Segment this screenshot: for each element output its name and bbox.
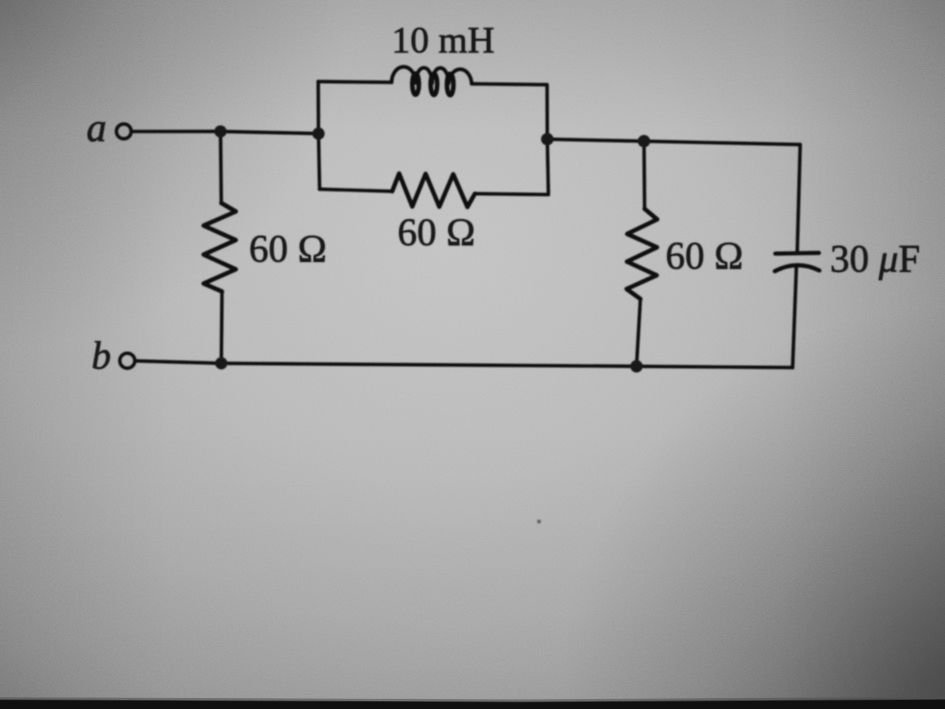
junction node: top of R1 [214, 125, 226, 137]
resistor R2 60ohm (horizontal zigzag) [392, 174, 475, 208]
resistor R3 60ohm right (vertical zigzag) [642, 141, 646, 209]
junction node: box left [312, 127, 324, 139]
capacitor C1 top stem [797, 145, 800, 253]
wire: box bottom branch right segment [475, 139, 549, 194]
wire: box bottom branch left segment [320, 189, 393, 191]
junction node: bottom of R3 [630, 360, 643, 373]
capacitor C1 curved bottom plate [775, 265, 820, 271]
capacitor C1 bottom stem [793, 267, 797, 368]
wire: right node to R3 node [547, 139, 644, 141]
dust speck [537, 520, 541, 524]
wire node1 to box left node [221, 131, 319, 133]
bottom rail [137, 361, 792, 368]
inductor L1 10 mH [392, 67, 472, 84]
junction node: box right [541, 133, 554, 146]
junction node: bottom of R1 [215, 357, 227, 369]
wire: box left vertical [318, 82, 319, 190]
terminal a (open circle) [116, 124, 131, 139]
wire: R3 node to cap corner [644, 141, 800, 144]
wire a to node1 [134, 130, 221, 134]
wire: box top branch left segment [318, 80, 391, 84]
dark table edge at bottom [0, 699, 945, 709]
resistor R1 60ohm left (vertical zigzag) [219, 131, 223, 203]
terminal b (open circle) [120, 353, 135, 368]
junction node: top of R3 [638, 135, 651, 148]
capacitor C1 top plate [775, 251, 819, 256]
wire: box top branch right segment [472, 84, 548, 139]
